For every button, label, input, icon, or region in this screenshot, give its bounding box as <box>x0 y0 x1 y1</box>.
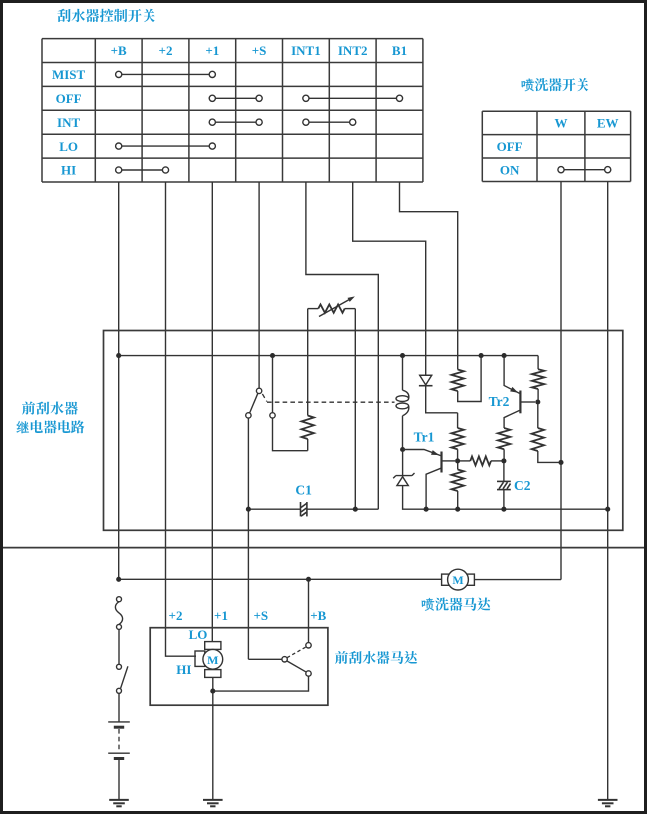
resistor R1 <box>302 416 314 440</box>
ignition switch SW1 <box>117 664 122 669</box>
wire +S net from table to relay contact pivot <box>258 182 260 388</box>
label washer motor 喷洗器马达 <box>422 597 491 610</box>
relay coil <box>402 357 404 390</box>
wire right ground bus <box>426 508 608 510</box>
wire B1 net from table to resistor R2 <box>400 182 458 370</box>
dashed park switch rest position <box>287 647 306 658</box>
switch contact MIST +B to +1 <box>116 71 216 77</box>
park switch blade <box>287 661 307 672</box>
fuse F1 <box>117 597 122 602</box>
wire motor +S lead to park switch pivot <box>248 658 282 660</box>
park switch contact lower <box>306 671 311 676</box>
switch contact INT INT1 to INT2 <box>303 119 356 125</box>
section divider line <box>0 547 647 549</box>
front wiper relay circuit box <box>104 331 623 531</box>
junction R5 R6 C2 node <box>501 458 506 463</box>
wire +1 net from table to wiper motor <box>211 182 213 642</box>
switch contact OFF INT1 to B1 <box>303 95 403 101</box>
svg-text:M: M <box>207 653 218 667</box>
wire park switch lower contact to motor return <box>215 676 309 691</box>
svg-text:Tr1: Tr1 <box>414 430 435 445</box>
wire +2 net from table to wiper motor <box>166 182 197 656</box>
svg-text:LO: LO <box>189 627 208 642</box>
label wiper control switch title 刮水器控制开关 <box>57 9 154 22</box>
svg-text:+1: +1 <box>205 43 219 58</box>
ground battery <box>109 799 129 801</box>
switch contact LO +B to +1 <box>116 143 216 149</box>
zener diode ZD1 <box>402 452 404 477</box>
svg-text:+B: +B <box>310 608 326 623</box>
front wiper motor M1 <box>205 642 221 650</box>
wire R2 bottom loop to bus <box>458 357 481 402</box>
relay contact NC <box>270 413 275 418</box>
resistor R2 <box>452 370 464 392</box>
junction contact NO wire and C1 bus <box>246 507 251 512</box>
junction motor +B feed and battery bus <box>306 577 311 582</box>
junction VR1 leg and C1 bus <box>353 507 358 512</box>
svg-text:OFF: OFF <box>56 91 82 106</box>
svg-text:MIST: MIST <box>52 67 86 82</box>
svg-text:+2: +2 <box>169 608 183 623</box>
transistor Tr2 <box>519 391 521 414</box>
svg-text:INT: INT <box>57 115 80 130</box>
junction +B column and bus <box>116 353 121 358</box>
park switch pivot <box>282 657 287 662</box>
wire battery to ground <box>118 759 120 800</box>
svg-text:C1: C1 <box>295 483 312 498</box>
junction +B column and battery bus <box>116 577 121 582</box>
resistor R6 <box>498 428 510 449</box>
variable resistor VR1 <box>308 308 319 310</box>
relay switch pivot <box>256 388 261 393</box>
front wiper motor box <box>150 628 328 706</box>
junction bus and contact feed <box>270 353 275 358</box>
wire motor return to ground <box>212 677 214 800</box>
svg-text:EW: EW <box>597 116 619 131</box>
junction R4 and bus <box>455 507 460 512</box>
junction Tr2 base R7 R8 <box>535 399 540 404</box>
dashed actuation link to coil <box>262 394 266 402</box>
svg-text:+S: +S <box>253 608 268 623</box>
wire INT1 net from table to C1 bus <box>306 182 378 509</box>
junction coil bottom Tr1 emitter zener <box>400 447 405 452</box>
svg-text:INT1: INT1 <box>291 43 321 58</box>
svg-text:W: W <box>555 116 568 131</box>
switch contact OFF +1 to +S <box>209 95 262 101</box>
wire +B net from table to battery junction <box>118 182 120 579</box>
relay contact NO <box>246 413 251 418</box>
label relay circuit 继电器电路 <box>17 420 85 433</box>
wire +B bus inside relay box <box>119 355 538 357</box>
wire VR1 left leg to R1 <box>307 309 309 416</box>
capacitor C1 <box>301 502 307 516</box>
svg-text:B1: B1 <box>392 43 407 58</box>
park switch contact upper <box>306 643 311 648</box>
label relay circuit 前刮水器 <box>22 402 78 415</box>
svg-text:LO: LO <box>59 139 78 154</box>
wire INT2 net from table to diode anode <box>353 182 426 375</box>
relay switch blade <box>250 393 258 413</box>
wire VR1 right leg to C1 bus <box>354 309 356 510</box>
transistor Tr1 <box>440 452 442 473</box>
svg-text:+1: +1 <box>214 608 228 623</box>
switch contact INT +1 to +S <box>209 119 262 125</box>
resistor R4 <box>457 463 459 470</box>
washer switch table grid <box>482 111 630 181</box>
junction Tr1 base R3 R4 R5 <box>455 458 460 463</box>
resistor R3 <box>457 413 459 428</box>
label washer switch title 喷洗器开关 <box>522 78 589 91</box>
svg-text:HI: HI <box>61 163 76 178</box>
junction motor return <box>210 689 215 694</box>
svg-text:C2: C2 <box>514 478 531 493</box>
resistor R7 <box>537 356 539 370</box>
junction R8 and W net <box>558 460 563 465</box>
junction C2 and bus <box>501 507 506 512</box>
wire W net from table to washer motor <box>560 182 562 580</box>
ground wiper motor <box>203 799 223 801</box>
switch contact ON W to EW <box>558 167 611 173</box>
wire bus to relay contact NC <box>272 357 274 412</box>
junction bus and Tr2 emitter <box>502 353 507 358</box>
wire relay contact NC to R1 <box>273 418 308 451</box>
svg-text:M: M <box>452 573 463 587</box>
svg-text:OFF: OFF <box>497 139 523 154</box>
wire switch to battery <box>118 693 120 722</box>
wire motor +B feed <box>308 582 310 643</box>
svg-text:Tr2: Tr2 <box>489 394 510 409</box>
junction Tr1 collector and bus <box>424 507 429 512</box>
wire fuse to main switch <box>118 629 120 664</box>
label front wiper motor 前刮水器马达 <box>335 651 417 664</box>
svg-text:HI: HI <box>176 662 191 677</box>
wire EW net from table to ground <box>607 182 609 800</box>
wiper control switch table grid <box>42 39 423 182</box>
washer motor M2 <box>442 574 450 585</box>
junction bus and relay coil <box>400 353 405 358</box>
wire C1 bus <box>248 508 378 510</box>
svg-text:+B: +B <box>111 43 127 58</box>
svg-text:+2: +2 <box>159 43 173 58</box>
svg-text:ON: ON <box>500 162 520 177</box>
svg-text:+S: +S <box>252 43 267 58</box>
ground washer circuit <box>598 799 618 801</box>
resistor R8 <box>537 404 539 428</box>
resistor R5 (base coupling) <box>460 460 470 462</box>
diode D1 <box>426 375 458 413</box>
wire washer motor to W net <box>474 579 561 581</box>
capacitor C2 <box>503 463 505 507</box>
wire R3 to base junction <box>457 449 459 461</box>
svg-text:INT2: INT2 <box>338 43 368 58</box>
switch contact HI +B to +2 <box>116 167 169 173</box>
wire battery bus <box>119 578 442 580</box>
wire R1 bottom lead <box>307 439 309 451</box>
wire relay contact NO to C1 bus and motor +S <box>247 418 249 659</box>
junction bus and R2 return <box>479 353 484 358</box>
battery BT1 <box>108 721 130 723</box>
junction EW net and bus <box>605 507 610 512</box>
